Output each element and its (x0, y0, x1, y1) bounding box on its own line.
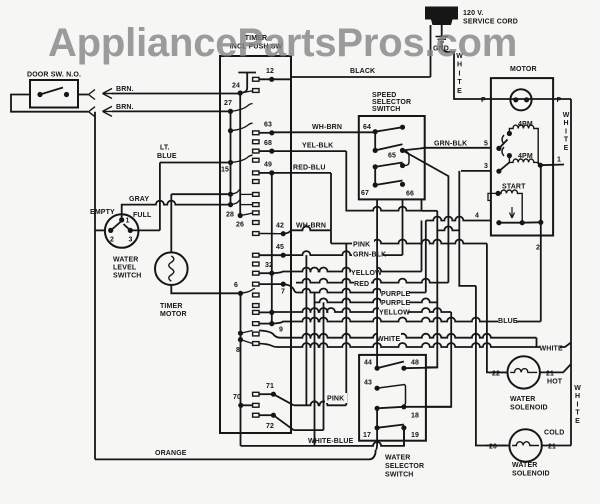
wire pin 49 contact link (259, 172, 272, 174)
node speed right a (400, 125, 405, 130)
timer contact pin 45 feed (253, 253, 259, 257)
svg-text:WHITE: WHITE (540, 346, 563, 353)
wire j1 arm to contact (240, 193, 252, 195)
wire door switch loop left (11, 95, 88, 112)
svg-text:H: H (575, 393, 580, 400)
node pin 28 (238, 213, 243, 218)
wire pin 9b contact link (259, 323, 272, 325)
svg-text:3: 3 (484, 163, 488, 170)
motor 4PM upper coil (509, 125, 540, 165)
speed 65 jog to box edge (403, 150, 410, 165)
bus timer A from pin 27 down (230, 111, 232, 204)
svg-text:BLUE: BLUE (157, 153, 177, 160)
svg-text:GRN-BLK: GRN-BLK (353, 252, 386, 259)
svg-text:17: 17 (363, 432, 371, 439)
motor circle dots (513, 97, 518, 102)
node start coil left (496, 191, 501, 196)
svg-text:SWITCH: SWITCH (372, 106, 401, 113)
wire pin 24 arm to contact (240, 91, 252, 93)
wire stub 437 to 459 (437, 226, 459, 230)
svg-text:HOT: HOT (547, 379, 563, 386)
water selector switch box (359, 355, 426, 441)
svg-text:W: W (574, 385, 581, 392)
wire water sel mid to 17 link (376, 408, 378, 428)
svg-text:I: I (577, 401, 579, 408)
svg-text:E: E (564, 145, 569, 152)
svg-text:DOOR SW. N.O.: DOOR SW. N.O. (27, 72, 81, 79)
break symbol lower (89, 107, 96, 117)
node speed right c (400, 163, 405, 168)
wire pin 72 lower (294, 429, 324, 431)
wire pin 9a contact link (259, 311, 272, 313)
motor start coil (498, 190, 522, 223)
wire WHITE1 ladder (259, 331, 537, 338)
wire LT BLUE horizontal to pin 15 (160, 162, 231, 164)
svg-text:28: 28 (226, 212, 234, 219)
timer contact pin 6 (253, 293, 259, 297)
wire pin 7 from contact (259, 283, 283, 285)
svg-text:E: E (457, 88, 462, 95)
svg-text:H: H (563, 120, 568, 127)
node pin 7 (281, 282, 286, 287)
wire pin 28 arm to contact (240, 213, 252, 216)
timer contact below pin 24 (253, 89, 259, 93)
ground wire from plug (441, 25, 443, 36)
water sel arm 43 (377, 385, 405, 407)
timer contact aux 4 (253, 262, 259, 266)
svg-text:27: 27 (224, 100, 232, 107)
node bus A aux dot (228, 128, 233, 133)
wire 20 link (486, 445, 509, 447)
wire arm to bus 2 (522, 221, 541, 223)
wire timer motor top horizontal (171, 193, 230, 195)
svg-text:TIMER: TIMER (160, 303, 183, 310)
wire BLUE to motor 2 riser (516, 321, 541, 323)
speed arm 67 (375, 181, 402, 186)
wire bundle vertical a (305, 255, 307, 405)
node motor dot 2 bus (538, 220, 543, 225)
wire YELLOW1 ladder from pin 32 (272, 268, 422, 274)
wire WHITE2 after label (560, 343, 571, 348)
water level switch dots 1 2 3 (119, 217, 124, 222)
node pin 9a dot (269, 310, 274, 315)
motor pin3 link to winding (499, 162, 510, 171)
node pin 72 (271, 413, 276, 418)
motor circle (510, 89, 531, 110)
wire bundle vertical c (323, 302, 325, 430)
arrowhead upper BRN (103, 89, 114, 99)
svg-text:32: 32 (265, 262, 273, 269)
svg-text:3: 3 (129, 237, 133, 244)
wire WH-BRN pin63 to speed 64 (272, 131, 375, 133)
wire pin 27 arm to contact (231, 104, 253, 112)
svg-text:RED-BLU: RED-BLU (293, 165, 326, 172)
node pin 70 (238, 403, 243, 408)
wire BLUE ladder from pin 9b (272, 318, 517, 324)
wire jog j2 to bus B (231, 199, 241, 204)
bus timer C from pin 49 down to pin 9 (271, 173, 273, 324)
wire 21 hot to white riser (556, 364, 571, 372)
svg-text:5: 5 (484, 141, 488, 148)
svg-text:71: 71 (266, 383, 274, 390)
wire BLACK horizontal (291, 76, 431, 78)
wire 66 riser grnblk (402, 199, 404, 255)
wire pin 71 contact link (259, 393, 273, 395)
svg-text:67: 67 (361, 190, 369, 197)
node pin 6 (238, 291, 243, 296)
service cord plug (425, 7, 458, 26)
wire pin 6 arm to contact (241, 289, 256, 294)
timer contact aux 5 (253, 304, 259, 308)
timer contact aux 3 (253, 180, 259, 184)
node speed pin 66 (400, 182, 405, 187)
timer contact pin 42 feed (253, 232, 259, 236)
wire grn-blk speed to motor 5 (425, 147, 491, 149)
wire 21 hot link (540, 371, 556, 373)
wire PINK ladder (331, 240, 487, 244)
wire left border vertical (94, 112, 96, 460)
wire motor 3 out (461, 170, 491, 172)
timer contact pin 68 (253, 149, 259, 153)
wire WH-BRN2 from pin 42 (283, 226, 331, 233)
svg-text:WATER: WATER (512, 462, 538, 469)
wire start left jog (488, 193, 498, 200)
wire timer motor top to junction (170, 194, 172, 252)
wire pin2 to left border (95, 229, 105, 231)
speed arm 64 (375, 127, 402, 132)
svg-text:SWITCH: SWITCH (113, 273, 142, 280)
svg-text:T: T (575, 410, 580, 417)
timer contact pin 9b (253, 322, 259, 326)
cold water solenoid circle (509, 429, 541, 461)
svg-text:GRAY: GRAY (129, 196, 149, 203)
node pin 12 (269, 77, 274, 82)
timer contact pin 32 feed (253, 271, 259, 275)
timer contact pin12 (253, 77, 259, 81)
wire jog j1 to bus B (231, 189, 241, 194)
svg-text:PURPLE: PURPLE (381, 291, 410, 298)
speed inner vertical 64 down (374, 132, 376, 151)
svg-text:6: 6 (234, 282, 238, 289)
node speed left b (373, 148, 378, 153)
timer contact pin 8a (253, 332, 259, 336)
node pin 49 (269, 170, 274, 175)
water sel arm 17 (377, 425, 404, 428)
wire pin 68 contact link (259, 150, 272, 152)
svg-text:24: 24 (232, 83, 240, 90)
wire BRN upper to timer pin 24 (112, 93, 240, 95)
node water sel pin 48 (401, 366, 406, 371)
wire BLACK riser at plug (430, 25, 432, 77)
svg-text:2: 2 (536, 245, 540, 252)
svg-text:BLACK: BLACK (350, 68, 375, 75)
water level switch arm 2-1 (111, 222, 121, 231)
svg-text:YEL-BLK: YEL-BLK (302, 143, 333, 150)
wire WHITE2 ladder (259, 343, 540, 347)
wire pin 19 down to whiteblue (403, 428, 405, 446)
door switch box DOOR SW. N.O. (30, 80, 78, 108)
svg-text:P: P (481, 97, 486, 104)
svg-text:72: 72 (266, 423, 274, 430)
node motor winding bottom (507, 153, 512, 158)
wire timer motor bottom to pin 6 (171, 285, 240, 293)
speed selector switch box (359, 116, 425, 199)
timer contact pin 26 (253, 221, 259, 225)
wire pin 45 from contact (259, 254, 283, 256)
wire pin 15 arm to contact (231, 155, 253, 162)
wire white1 jog down (536, 338, 538, 347)
hot solenoid coil (510, 369, 537, 373)
svg-text:SPEED: SPEED (372, 92, 396, 99)
wire FULL pin3 to ltblue riser (130, 229, 160, 231)
svg-text:T: T (457, 79, 462, 86)
wire BRN lower to timer pin 27 (112, 110, 231, 112)
timer motor circle (155, 252, 188, 285)
timer box INCL PUSH SW (220, 56, 291, 433)
svg-text:8: 8 (236, 347, 240, 354)
bus timer B upper from pin 24 down to pin 28 (239, 93, 241, 216)
svg-text:PINK: PINK (353, 242, 370, 249)
wire pin 72 contact link (259, 414, 273, 416)
timer contact aux 2 (253, 158, 259, 162)
svg-text:4: 4 (475, 213, 479, 220)
wire pin 63 contact link (259, 132, 272, 134)
wire RED ladder (296, 279, 448, 283)
node junction timer motor wire (228, 192, 233, 197)
wire pin 71 pink lower (294, 401, 347, 405)
wire white riser right side (570, 99, 572, 446)
wire pin 48 out (404, 367, 437, 370)
svg-text:BRN.: BRN. (116, 104, 134, 111)
svg-text:48: 48 (411, 360, 419, 367)
svg-text:15: 15 (221, 167, 229, 174)
svg-text:70: 70 (233, 394, 241, 401)
svg-text:I: I (459, 70, 461, 77)
svg-text:9: 9 (279, 327, 283, 334)
timer contact j2 (253, 203, 259, 207)
node water sel pin 19 (401, 425, 406, 430)
svg-text:LT.: LT. (160, 145, 170, 152)
svg-text:AppliancePartsPros.com: AppliancePartsPros.com (48, 21, 517, 65)
wire YEL-BLK riser and run (346, 151, 421, 211)
svg-text:45: 45 (276, 244, 284, 251)
motor 4PM lower coil (509, 156, 540, 166)
svg-text:RED: RED (354, 281, 369, 288)
break symbol upper (89, 90, 96, 100)
wire neutral white from ground to motor P (442, 43, 491, 99)
svg-text:BRN.: BRN. (116, 86, 134, 93)
speed arm c (375, 163, 402, 167)
node motor pin 3 (496, 169, 501, 174)
svg-text:MOTOR: MOTOR (160, 311, 187, 318)
motor box (491, 78, 553, 235)
timer contact pin 9a (253, 311, 259, 315)
wire YEL-BLK stub to pin48 riser (422, 210, 438, 212)
node pin 42 (281, 231, 286, 236)
wire YELLOW2 ladder from pin 9a (272, 308, 451, 312)
svg-text:SOLENOID: SOLENOID (510, 405, 548, 412)
wire j2 arm to contact (240, 204, 252, 206)
svg-text:66: 66 (406, 191, 414, 198)
timer contact aux 1 (253, 140, 259, 144)
wire motor3 riser (459, 171, 476, 286)
svg-text:WATER: WATER (385, 455, 411, 462)
wire speed 67 riser to pin 44 (376, 199, 378, 368)
timer T-bar symbol (238, 73, 256, 94)
wire yellow1 riser to 4 wire (421, 221, 423, 272)
timer contact pin 28 (253, 211, 259, 215)
wire LT BLUE riser (159, 163, 161, 231)
wire pin 71 diagonal (273, 394, 293, 405)
wire ORANGE bottom (95, 450, 376, 459)
svg-text:42: 42 (276, 223, 284, 230)
svg-text:W: W (563, 112, 570, 119)
timer contact pin 71 (253, 392, 259, 396)
water sel arm mid (377, 407, 404, 409)
node speed pin 64 (373, 129, 378, 134)
wire motor P to right riser (553, 98, 571, 100)
node speed left c (373, 164, 378, 169)
svg-text:WHITE-BLUE: WHITE-BLUE (308, 438, 354, 445)
node pin 45 (281, 253, 286, 258)
wire bundle vertical b (314, 293, 316, 446)
node water sel pin 17 (375, 425, 380, 430)
cold solenoid coil (512, 442, 539, 446)
wire jog down to PINK (330, 230, 332, 243)
wire pin 12 to contact and box edge (259, 78, 291, 80)
wire WHITE-BLUE (241, 428, 405, 446)
motor start switch arm (499, 222, 522, 224)
speed inner vertical c down (374, 167, 376, 185)
wire pink riser to hot solenoid 22 (487, 244, 507, 373)
wire 21 cold link (542, 445, 571, 447)
svg-text:2: 2 (110, 237, 114, 244)
timer contact pin 7 feed (253, 282, 259, 286)
svg-text:GRN-BLK: GRN-BLK (434, 140, 467, 147)
door switch arm (40, 88, 63, 95)
node pin 8a (238, 331, 243, 336)
svg-text:WHITE: WHITE (377, 336, 400, 343)
label YELLOW2 gap cover (379, 307, 408, 317)
svg-text:18: 18 (411, 413, 419, 420)
svg-text:49: 49 (264, 162, 272, 169)
svg-text:SELECTOR: SELECTOR (385, 463, 424, 470)
node motor winding top (507, 131, 512, 136)
wire GRAY from pin 1 (122, 201, 231, 220)
wire pin 32 contact link (259, 272, 272, 274)
svg-text:I: I (565, 128, 567, 135)
node pin 15 (228, 160, 233, 165)
timer contact pin 49 (253, 171, 259, 175)
label YELLOW1 gap cover (351, 267, 377, 277)
svg-text:MOTOR: MOTOR (510, 66, 537, 73)
svg-text:YELLOW: YELLOW (379, 310, 410, 317)
wire RED-BLU pin 49 (272, 172, 331, 174)
node pin 24 (238, 90, 243, 95)
wire bundle vertical d pink71 riser (345, 244, 347, 403)
node speed pin 67 (373, 182, 378, 187)
wire door switch to break upper (78, 94, 88, 96)
wire motor 2 riser (540, 236, 542, 322)
svg-text:21: 21 (548, 444, 556, 451)
water sel arm 44 (377, 362, 404, 369)
timer contact pin 70 (253, 403, 259, 407)
svg-text:SWITCH: SWITCH (385, 472, 414, 479)
node junction gray wire (228, 202, 233, 207)
speed arm b (375, 144, 402, 150)
node pin 71 (271, 392, 276, 397)
svg-text:WATER: WATER (510, 396, 536, 403)
door switch contact dots (37, 92, 42, 97)
wire motor 1 out (540, 164, 564, 167)
svg-text:68: 68 (264, 140, 272, 147)
motor centrifugal arcs (502, 135, 504, 156)
node water sel pin 44 (375, 366, 380, 371)
node speed 65 (400, 148, 405, 153)
wire motor P line through (491, 98, 553, 100)
svg-text:ORANGE: ORANGE (155, 450, 187, 457)
label PINK gap cover (352, 238, 374, 247)
svg-text:T: T (564, 137, 569, 144)
svg-text:63: 63 (264, 122, 272, 129)
svg-text:1: 1 (557, 157, 561, 164)
node pin 63 (269, 130, 274, 135)
wire GRN-BLK ladder from pin 45 (283, 251, 402, 255)
timer contact pin 72 (253, 413, 259, 417)
svg-text:WH-BRN: WH-BRN (312, 124, 342, 131)
water level switch circle (105, 214, 139, 248)
wire pin48 riser (426, 211, 437, 367)
motor pin5 arm (499, 140, 508, 149)
node motor pin 5 (496, 146, 501, 151)
wire RED-BLU riser (330, 173, 332, 230)
svg-text:PURPLE: PURPLE (381, 300, 410, 307)
ground symbol (436, 37, 449, 43)
label PURPLE1 gap cover (381, 288, 409, 298)
wire pin 8a arm (241, 331, 253, 334)
node water sel pin 43 (375, 386, 380, 391)
wire 65 to grn-blk motor wire (403, 148, 425, 151)
wire pin 17 down (376, 428, 378, 450)
svg-text:120 V.: 120 V. (463, 10, 484, 17)
water level switch arm 3 (124, 224, 131, 230)
svg-text:WATER: WATER (113, 257, 139, 264)
svg-text:7: 7 (281, 289, 285, 296)
label BLUE gap cover (498, 317, 517, 327)
label WHITE1 gap cover (377, 333, 401, 343)
wire pin18 riser (426, 312, 451, 407)
svg-text:P: P (557, 97, 562, 104)
node motor junction 1 (538, 163, 543, 168)
label GRN-BLK ladder gap cover (352, 250, 383, 260)
svg-text:SELECTOR: SELECTOR (372, 99, 411, 106)
node pin 32 (269, 271, 274, 276)
svg-text:20: 20 (489, 444, 497, 451)
wire pin4 riser (425, 221, 427, 293)
start actuator arrow (510, 207, 515, 218)
motor inner bus to start (540, 165, 542, 235)
node pin 8b (238, 337, 243, 342)
wire PURPLE2 ladder (315, 298, 438, 302)
svg-text:SOLENOID: SOLENOID (512, 471, 550, 478)
bus timer B lower pin6 to whiteblue (240, 293, 242, 446)
wire motor 4 out (426, 217, 491, 221)
timer contact j1 (253, 193, 259, 197)
hot water solenoid circle (508, 356, 540, 388)
wire PURPLE1 ladder from pin 7 (283, 284, 426, 292)
wire pin 18 out (404, 406, 451, 408)
wire 65 diagonal riser (403, 150, 449, 282)
